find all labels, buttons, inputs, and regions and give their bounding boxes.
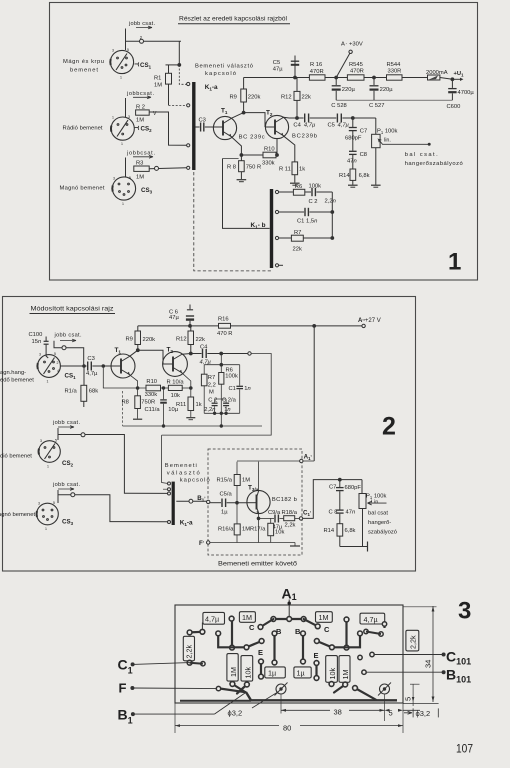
transistor T1 fig2 xyxy=(111,354,135,378)
bottom ground trace pcb xyxy=(221,689,246,693)
pad A1 top xyxy=(288,602,291,605)
junction dot R1a xyxy=(83,365,86,368)
junction dot R12/T2 collector xyxy=(296,117,299,120)
capacitor C527 220u xyxy=(373,78,375,86)
svg-text:+U1: +U1 xyxy=(454,71,465,77)
switch contact circle xyxy=(62,346,66,350)
svg-text:bemenet: bemenet xyxy=(70,68,98,74)
svg-text:C: C xyxy=(324,625,330,634)
svg-text:80: 80 xyxy=(283,724,291,733)
svg-text:Mágn és krpu: Mágn és krpu xyxy=(63,59,104,65)
wire T1c to T2b fig2 xyxy=(138,350,163,364)
svg-text:C4: C4 xyxy=(293,123,301,129)
svg-text:R544: R544 xyxy=(387,62,402,68)
wire C5 to P1 xyxy=(342,117,375,119)
svg-text:B1,: B1, xyxy=(197,494,205,503)
svg-text:4: 4 xyxy=(57,369,59,373)
svg-text:C7: C7 xyxy=(360,129,367,135)
svg-text:R14: R14 xyxy=(339,173,350,179)
svg-text:C1,: C1, xyxy=(303,508,311,517)
wire down to CS2 xyxy=(125,98,127,117)
svg-text:107: 107 xyxy=(456,742,473,756)
junction dot T2 emitter xyxy=(276,154,279,157)
svg-text:M: M xyxy=(209,390,214,396)
connector CS3 xyxy=(112,176,135,206)
svg-text:CS1: CS1 xyxy=(140,62,152,70)
svg-text:C3: C3 xyxy=(87,356,94,362)
capacitor C2 2,2n xyxy=(311,188,313,196)
trace 4,7u left lead to 2,2k top xyxy=(201,623,203,632)
transistor T1 xyxy=(213,116,236,139)
component 1M left vertical xyxy=(227,654,238,682)
ground symbol R11 fig2 xyxy=(186,417,195,419)
svg-text:2: 2 xyxy=(57,361,59,365)
svg-text:R17/a: R17/a xyxy=(250,527,266,533)
svg-text:22k: 22k xyxy=(196,337,205,343)
svg-text:lin.: lin. xyxy=(384,137,391,143)
svg-text:Módosított kapcsolási rajz: Módosított kapcsolási rajz xyxy=(31,306,114,313)
svg-text:T1: T1 xyxy=(221,108,228,116)
terminal F' xyxy=(207,541,210,544)
wire contact3 R7 xyxy=(279,237,292,239)
selector wire CS1 fig2 xyxy=(54,341,84,366)
selector wire CS2 fig2 xyxy=(58,428,168,493)
svg-text:2,2k: 2,2k xyxy=(185,645,194,659)
svg-text:Rádió bemenet: Rádió bemenet xyxy=(63,126,103,132)
wire CS1 to C3 xyxy=(60,365,86,367)
component 2,2k left vertical xyxy=(183,636,194,661)
selector wire CS3 fig2 xyxy=(58,490,168,522)
emitter node T3 xyxy=(258,514,260,543)
svg-text:C100: C100 xyxy=(29,332,43,338)
wire relay common to B1' xyxy=(176,500,208,502)
T2 emitter wire fig2 xyxy=(182,373,191,397)
svg-text:5: 5 xyxy=(389,709,393,718)
svg-text:BC 239c: BC 239c xyxy=(239,135,265,141)
capacitor C7 680pF xyxy=(352,118,354,127)
trace 4,7u right lead down to 1M top xyxy=(231,620,233,648)
junction dot rail 2 xyxy=(373,76,376,79)
svg-text:R 16: R 16 xyxy=(310,62,322,68)
component 4,7u left xyxy=(203,612,225,624)
svg-text:5: 5 xyxy=(404,697,413,701)
svg-text:C 528: C 528 xyxy=(331,103,346,109)
capacitor C5 47u xyxy=(294,56,296,78)
svg-text:Bemeneti emitter követő: Bemeneti emitter követő xyxy=(218,561,298,568)
svg-text:68k: 68k xyxy=(89,389,98,395)
svg-text:C1: C1 xyxy=(118,657,133,676)
arrow under jobbcsat (CS3) xyxy=(133,155,153,158)
wire rail to A'' terminal xyxy=(314,325,362,327)
svg-text:5: 5 xyxy=(55,439,57,443)
dim extension right xyxy=(403,606,437,608)
connector CS3 fig2 xyxy=(37,501,59,531)
svg-text:1µ: 1µ xyxy=(221,510,228,516)
svg-text:15n: 15n xyxy=(32,339,42,345)
svg-text:330k: 330k xyxy=(262,161,275,167)
pads top bus xyxy=(271,617,276,622)
svg-text:5: 5 xyxy=(54,352,56,356)
ground under R8 fig2 xyxy=(133,418,142,420)
svg-text:C5: C5 xyxy=(328,123,335,129)
wire jobb csat down to CS1 xyxy=(125,29,127,51)
svg-text:220k: 220k xyxy=(143,337,156,343)
resistor R7 fig2 2,2M xyxy=(203,365,205,375)
svg-text:BC239b: BC239b xyxy=(292,134,317,140)
svg-text:R 10/a: R 10/a xyxy=(167,380,185,386)
svg-text:edő bemenet: edő bemenet xyxy=(0,378,34,384)
ground under R11 xyxy=(290,182,300,184)
feedback wire to T1 base xyxy=(102,365,105,368)
svg-text:kapcsoló: kapcsoló xyxy=(205,71,236,77)
top bus trace xyxy=(273,618,303,620)
ground under R8 xyxy=(237,179,247,181)
svg-text:C600: C600 xyxy=(447,104,461,110)
trace B right down xyxy=(302,633,304,661)
relay K1-b bar xyxy=(270,189,273,268)
svg-text:jobb csat.: jobb csat. xyxy=(128,21,155,27)
dim line 80 xyxy=(174,703,176,733)
junction dots right bus xyxy=(331,211,334,214)
svg-text:38: 38 xyxy=(334,708,342,717)
transistor T2 xyxy=(265,115,289,138)
svg-text:750R: 750R xyxy=(141,400,155,406)
svg-text:R12: R12 xyxy=(281,95,292,101)
svg-text:R1/a: R1/a xyxy=(65,389,78,395)
capacitor C1 1,5n xyxy=(304,208,306,216)
svg-text:R 8: R 8 xyxy=(227,165,236,171)
lower rail wire xyxy=(336,99,452,101)
wire diagonal to A'+30V xyxy=(336,54,350,78)
svg-text:B101: B101 xyxy=(446,667,471,685)
emitter network T1: wire to R8 xyxy=(231,137,241,161)
svg-text:R16: R16 xyxy=(218,317,229,323)
svg-text:1: 1 xyxy=(45,527,47,531)
svg-text:R11: R11 xyxy=(176,402,186,408)
svg-text:bal csat.: bal csat. xyxy=(405,152,438,158)
svg-text:4,7µ: 4,7µ xyxy=(304,123,316,129)
terminal +U1 xyxy=(451,78,454,81)
component 10k left vertical xyxy=(241,656,253,682)
svg-text:10k: 10k xyxy=(171,393,180,399)
wire R2 to relay contact 3 xyxy=(149,112,186,145)
svg-text:3: 3 xyxy=(38,502,40,506)
svg-text:R 2: R 2 xyxy=(136,104,145,110)
resistor R14 fig2 6,8k xyxy=(337,524,343,536)
svg-text:C8: C8 xyxy=(360,152,367,158)
svg-text:A,,+27 V: A,,+27 V xyxy=(358,316,381,324)
terminal B1' circle xyxy=(207,500,210,503)
svg-text:CS2: CS2 xyxy=(141,126,153,134)
svg-text:22k: 22k xyxy=(293,247,302,253)
svg-text:47n: 47n xyxy=(346,510,356,516)
figure 2 title underline xyxy=(30,313,116,315)
bottom wire fig2 right xyxy=(340,546,363,548)
wire T2 collector up xyxy=(284,116,290,119)
svg-text:680pF: 680pF xyxy=(345,485,362,491)
trace right mirror vertical xyxy=(345,620,347,648)
svg-text:1: 1 xyxy=(120,76,122,80)
svg-text:ϕ3,2: ϕ3,2 xyxy=(228,709,243,718)
svg-text:1M: 1M xyxy=(136,175,144,181)
svg-text:1M: 1M xyxy=(229,667,238,677)
component 10k right vertical xyxy=(326,656,338,683)
svg-text:330R: 330R xyxy=(388,69,402,75)
svg-text:1M: 1M xyxy=(319,613,329,622)
svg-text:T2: T2 xyxy=(266,110,273,118)
pcb board outline xyxy=(175,605,403,703)
svg-text:10k: 10k xyxy=(275,530,284,536)
switch contact circle CS1 xyxy=(140,39,144,43)
svg-text:3: 3 xyxy=(112,49,114,53)
figure 1 border frame xyxy=(50,3,478,281)
svg-text:C101: C101 xyxy=(446,649,471,667)
svg-text:C1 1,5n: C1 1,5n xyxy=(297,219,317,225)
component 4,7u right xyxy=(360,613,385,624)
svg-text:R14: R14 xyxy=(324,528,335,534)
svg-text:5: 5 xyxy=(127,48,129,52)
junction dot T1 collector fig2 xyxy=(136,349,139,352)
svg-text:R15/a: R15/a xyxy=(217,478,233,484)
resistor R14 6,8k xyxy=(350,169,356,180)
wire down to node xyxy=(178,41,180,65)
trace crossing left bottom xyxy=(232,684,246,693)
svg-text:R10: R10 xyxy=(146,379,157,385)
wire T1 collector to T2 base xyxy=(244,113,265,127)
svg-text:4,7µ: 4,7µ xyxy=(205,615,219,624)
jumper C1 xyxy=(201,662,205,666)
svg-text:4,7µ: 4,7µ xyxy=(86,371,98,377)
svg-text:C: C xyxy=(249,623,255,632)
svg-text:1: 1 xyxy=(448,249,461,276)
capacitor C4 4,7u xyxy=(304,114,306,123)
svg-text:1k: 1k xyxy=(196,402,202,408)
svg-text:1: 1 xyxy=(112,116,114,120)
svg-text:6,8k: 6,8k xyxy=(345,528,356,534)
component 1M right vertical xyxy=(339,656,350,683)
svg-text:T1: T1 xyxy=(115,347,122,355)
svg-text:220µ: 220µ xyxy=(380,87,394,93)
svg-text:jobb csat.: jobb csat. xyxy=(52,482,80,488)
svg-text:K1- b: K1- b xyxy=(251,222,266,230)
terminal A1' xyxy=(300,459,303,462)
svg-text:Bemeneti választó: Bemeneti választó xyxy=(195,64,253,70)
svg-text:1µ: 1µ xyxy=(268,669,276,678)
pin tick CS2 xyxy=(135,126,139,130)
svg-text:1k: 1k xyxy=(299,167,305,173)
svg-text:2: 2 xyxy=(382,413,396,441)
T1 emitter wire fig2 xyxy=(130,375,138,396)
ground symbol follower xyxy=(294,543,296,546)
svg-text:470R: 470R xyxy=(310,69,324,75)
resistor R10 330k xyxy=(241,154,263,156)
capacitor C5b 4,7u xyxy=(336,114,338,123)
capacitor C11/a 10u xyxy=(163,388,165,399)
svg-text:4700µ: 4700µ xyxy=(458,90,475,96)
svg-text:,: , xyxy=(346,40,347,45)
svg-text:T2: T2 xyxy=(167,347,174,355)
pin tick CS1 xyxy=(135,62,139,66)
svg-text:E: E xyxy=(314,651,319,660)
ground fig2 right xyxy=(363,546,368,548)
svg-text:R9: R9 xyxy=(126,336,133,342)
svg-text:Bemeneti: Bemeneti xyxy=(165,463,197,469)
svg-text:R12: R12 xyxy=(176,336,187,342)
junction dot xyxy=(178,64,181,67)
trace E left xyxy=(260,662,262,677)
svg-text:330k: 330k xyxy=(145,392,158,398)
svg-text:dió bemenet: dió bemenet xyxy=(0,454,32,460)
svg-text:10k: 10k xyxy=(244,667,253,679)
component 1u right xyxy=(294,667,311,678)
trace L from pad D to E pad left xyxy=(218,634,246,647)
svg-text:3: 3 xyxy=(128,115,130,119)
figure 1 title underline xyxy=(178,23,290,25)
wire C4 to C5 xyxy=(310,117,337,119)
trace B left down xyxy=(273,633,275,662)
svg-text:P1 100k: P1 100k xyxy=(377,129,398,135)
svg-text:1: 1 xyxy=(121,142,123,146)
svg-text:+30V: +30V xyxy=(349,42,363,48)
svg-text:agn.hang-: agn.hang- xyxy=(0,370,26,376)
junction dot emitter node xyxy=(240,154,243,157)
svg-text:Magnó bemenet: Magnó bemenet xyxy=(60,186,105,192)
capacitor C1 fig2 1n xyxy=(239,365,241,386)
svg-text:R7: R7 xyxy=(208,375,215,381)
connector CS1 fig2 xyxy=(37,352,60,384)
trace crossing right bottom xyxy=(334,685,345,693)
svg-text:R545: R545 xyxy=(349,62,363,68)
terminal C1' xyxy=(299,517,302,520)
svg-text:A1,: A1, xyxy=(304,452,312,461)
lead A1 xyxy=(288,600,290,617)
feedback network loop fig2 xyxy=(220,354,222,373)
svg-text:jobbcsat.: jobbcsat. xyxy=(126,91,154,97)
component 1M left xyxy=(239,612,255,623)
svg-text:R1: R1 xyxy=(154,76,161,82)
svg-text:CS2: CS2 xyxy=(62,460,74,468)
junction dot rail A' xyxy=(335,76,338,79)
svg-text:jobb csat.: jobb csat. xyxy=(54,333,82,339)
trace L mirror right to E pad xyxy=(332,634,360,647)
wire contact2 C1 xyxy=(279,211,304,213)
ground under R14 xyxy=(348,184,358,186)
pad 2,2k left bottom xyxy=(187,660,192,665)
resistor R8 750R xyxy=(239,161,245,172)
svg-text:1µ: 1µ xyxy=(297,669,305,678)
relay K1-b contacts xyxy=(275,190,278,193)
svg-text:10k: 10k xyxy=(328,668,337,680)
svg-text:CS1: CS1 xyxy=(65,373,77,381)
wire collector diag fig2 xyxy=(130,350,138,356)
svg-text:3: 3 xyxy=(458,598,471,625)
row connectors R10 R10a R11 xyxy=(161,387,169,389)
svg-text:BC182 b: BC182 b xyxy=(272,497,297,503)
wire selector tap fig2 xyxy=(162,354,272,436)
dashed link to contact 1 xyxy=(179,65,186,84)
svg-text:750 R: 750 R xyxy=(246,165,261,171)
svg-text:Lin: Lin xyxy=(371,500,378,506)
svg-text:470 R: 470 R xyxy=(217,331,232,337)
mechanical link dashed xyxy=(194,172,272,271)
svg-text:Részlet az eredeti kapcsolási: Részlet az eredeti kapcsolási rajzból xyxy=(179,16,288,23)
relay K1-a bar xyxy=(192,82,195,170)
svg-text:F: F xyxy=(119,681,127,696)
connector CS1 xyxy=(110,48,133,80)
svg-text:ϕ3,2: ϕ3,2 xyxy=(416,709,431,718)
svg-text:hangerő-: hangerő- xyxy=(368,520,391,526)
junction dot T3 base xyxy=(236,501,239,504)
svg-text:2,2k: 2,2k xyxy=(285,523,296,529)
resistor R6 fig2 100k xyxy=(219,373,224,385)
wire down to CS3 xyxy=(125,158,127,178)
svg-text:4,7µ: 4,7µ xyxy=(338,123,350,129)
switch contact circle CS3 row xyxy=(155,166,159,170)
long wire down right side xyxy=(313,326,315,461)
resistor R1 1M xyxy=(166,64,180,66)
svg-text:1: 1 xyxy=(47,465,49,469)
svg-text:R16/a: R16/a xyxy=(218,527,234,533)
svg-text:6,8k: 6,8k xyxy=(359,173,370,179)
trace E right xyxy=(315,663,317,678)
arrow under jobb csat xyxy=(60,339,76,342)
relay K1-a fig2 contacts xyxy=(168,482,171,485)
supply rail fig2 xyxy=(138,325,314,327)
svg-text:1n: 1n xyxy=(244,386,250,392)
svg-text:R 11: R 11 xyxy=(279,167,291,173)
svg-text:CS3: CS3 xyxy=(62,519,74,527)
transistor T2 fig2 xyxy=(163,352,188,377)
svg-text:R9: R9 xyxy=(230,95,237,101)
resistor R11 1k xyxy=(292,162,298,175)
wire T2 emitter down xyxy=(276,139,278,155)
component 2,2k right vertical xyxy=(406,630,419,651)
svg-text:5: 5 xyxy=(129,176,131,180)
svg-text:jobb csat.: jobb csat. xyxy=(52,420,80,426)
svg-text:C 527: C 527 xyxy=(369,103,384,109)
dashed link to contact 2 xyxy=(169,104,187,106)
ground under P1 xyxy=(371,184,381,186)
junction dot C6 rail xyxy=(189,325,192,328)
svg-text:R10: R10 xyxy=(264,147,275,153)
svg-text:kapcsoló: kapcsoló xyxy=(180,477,210,483)
svg-text:47n: 47n xyxy=(347,159,357,165)
component 1M right xyxy=(316,612,333,623)
capacitor C528 220u xyxy=(335,78,337,86)
svg-text:1: 1 xyxy=(47,380,49,384)
output tap terminal xyxy=(248,352,251,355)
svg-text:C5/a: C5/a xyxy=(220,492,233,498)
svg-text:1M: 1M xyxy=(242,613,252,622)
component 1u left xyxy=(265,667,286,678)
svg-text:5: 5 xyxy=(53,501,55,505)
trace right bottom diag xyxy=(355,688,376,700)
dim line 38 and 5 xyxy=(280,695,282,714)
svg-text:C11/a: C11/a xyxy=(145,407,161,413)
junction dot rail down xyxy=(313,325,316,328)
svg-text:R18/a: R18/a xyxy=(282,510,298,516)
junction dot T1 collector xyxy=(242,111,245,114)
wire A1' to supply vertical xyxy=(303,460,314,462)
svg-text:2,2: 2,2 xyxy=(208,382,216,388)
diagonal trace left C xyxy=(261,619,274,627)
bottom wire inside box xyxy=(210,542,295,544)
svg-text:R6: R6 xyxy=(226,367,233,373)
svg-text:C5: C5 xyxy=(273,60,280,66)
svg-text:A: A xyxy=(341,42,345,48)
resistor R1/a 68k xyxy=(83,366,85,385)
svg-text:B1: B1 xyxy=(118,707,133,726)
